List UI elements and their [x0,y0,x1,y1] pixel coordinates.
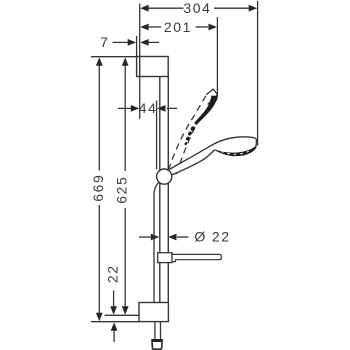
svg-text:7: 7 [100,34,108,50]
hose below bracket: right edge [160,322,162,340]
soap dish holder block [158,253,172,263]
dimension 304 line [148,7,184,9]
arrow 625 top [122,57,129,65]
soap dish arm [172,254,221,261]
extension line A (x=136.6 plate left) [136,36,138,57]
dimension 201 line [148,26,161,28]
svg-text:625: 625 [114,176,130,204]
arrow 304 left [140,5,148,12]
dashed shower: left dashed curve [169,96,206,170]
wall bracket top: outer box [137,57,169,77]
arrow 44 right [157,105,165,112]
dimension 44 lines [118,107,131,109]
hose below bracket: left edge [154,322,156,340]
dashed shower: head tip outline [206,89,217,100]
rail left edge [159,77,161,303]
svg-text:669: 669 [90,174,106,202]
hose end cap [152,340,162,349]
extension line C (x=139.7 below bracket) [139,77,141,120]
arrow 669 bottom [96,313,103,321]
arrow 7 right (pointing left) [140,39,148,46]
arrow 201 right [209,24,217,31]
bottom up-arrow stem [113,331,115,343]
arrow 22 bottom [110,306,117,314]
dashed shower: right dashed curve [176,123,197,175]
dashed shower: crescent tail dots [184,125,196,145]
dim 669 vertical line [98,65,100,171]
hand shower solid: white body fill (handle + head) [170,137,257,175]
extension line D (44 dim right ref x=156.6) [156,101,158,170]
arrow 44 left [131,105,139,112]
extension line L (y=315.3 rail bottom ref) [105,314,140,316]
dashed shower: dark spray crescent [194,96,218,126]
svg-text:Ø 22: Ø 22 [194,229,230,245]
arrow up at bracket bottom [111,322,118,330]
rail right edge [167,77,169,303]
dash-dot leader to dashed head [208,95,218,105]
dimension 7 lines [113,41,129,43]
dim 22 vertical line [113,291,115,308]
slider circle [157,169,172,184]
arrow 304 right [249,5,257,12]
hand shower solid: dark face band [215,146,256,155]
arrow 7 left (pointing right) [128,39,136,46]
extension line B top (x=139.7 above bracket) [139,4,141,57]
arrow dia22 left [151,234,159,241]
arrow 625 bottom [122,306,129,314]
extension line E (201 dim right ref x=217.4) [216,17,218,95]
arrow dia22 right [168,234,176,241]
hand shower solid: lower edge into neck [172,150,215,175]
svg-text:22: 22 [105,264,121,283]
wall bracket top: plate inner line [139,57,141,77]
hose end cap dark top band [152,340,162,342]
svg-text:44: 44 [139,100,158,116]
dimension dia22 lines [139,236,151,238]
arrow 669 top [96,57,103,65]
bottom wall bracket [139,303,168,322]
extension line F (304 dim right ref x=257.6) [257,1,259,146]
slider hose: curve below circle [154,183,159,303]
hand shower solid: upper edge + top contour + right edge [170,137,257,169]
extension line M (y=321.7 bracket bottom ref) [91,321,139,323]
extension line K (y=56.6 from bracket top-left) [91,56,137,58]
svg-text:304: 304 [183,0,211,16]
arrow 201 left [140,24,148,31]
dim 625 vertical line [124,65,126,172]
white speckles in face band [221,151,249,155]
svg-text:201: 201 [164,19,192,35]
